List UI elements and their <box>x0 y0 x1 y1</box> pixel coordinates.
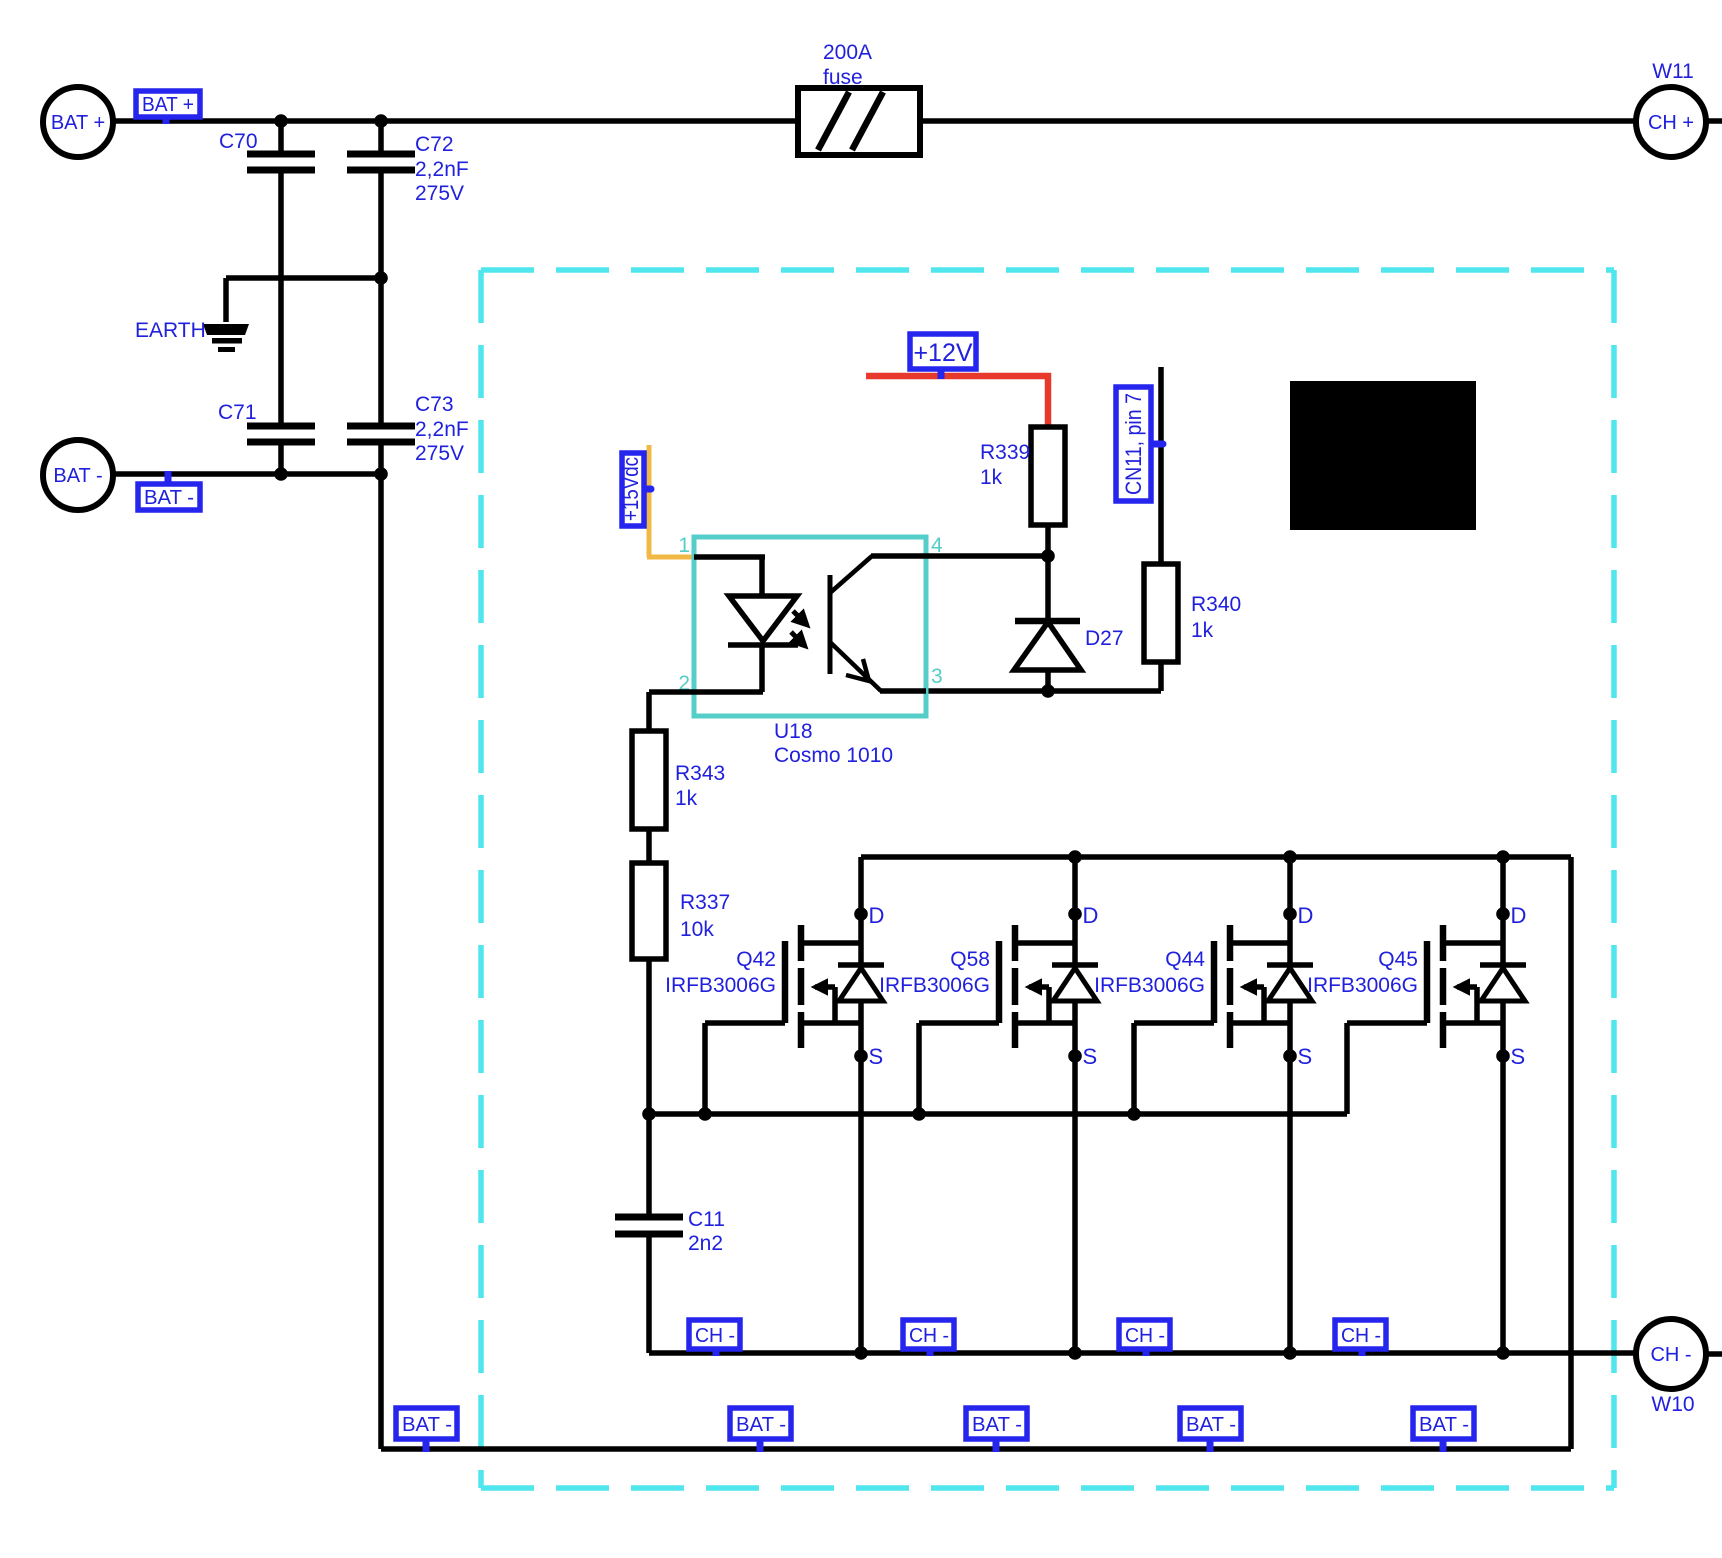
svg-text:BAT -: BAT - <box>402 1414 452 1436</box>
svg-text:R343: R343 <box>675 762 725 785</box>
svg-text:D27: D27 <box>1085 627 1124 650</box>
svg-text:fuse: fuse <box>823 66 863 89</box>
svg-text:Q45: Q45 <box>1378 948 1418 971</box>
svg-text:1k: 1k <box>980 466 1003 489</box>
svg-text:IRFB3006G: IRFB3006G <box>1094 974 1205 997</box>
svg-text:CH +: CH + <box>1648 112 1694 134</box>
svg-text:10k: 10k <box>680 918 714 941</box>
svg-text:R340: R340 <box>1191 593 1241 616</box>
svg-text:C70: C70 <box>219 130 258 153</box>
svg-text:200A: 200A <box>823 41 872 64</box>
svg-text:C71: C71 <box>218 401 257 424</box>
svg-text:2,2nF: 2,2nF <box>415 158 469 181</box>
svg-text:W10: W10 <box>1651 1393 1694 1416</box>
svg-text:C72: C72 <box>415 133 454 156</box>
svg-text:1k: 1k <box>675 787 698 810</box>
svg-text:275V: 275V <box>415 182 464 205</box>
svg-text:IRFB3006G: IRFB3006G <box>1307 974 1418 997</box>
svg-text:2n2: 2n2 <box>688 1232 723 1255</box>
svg-text:+15Vdc: +15Vdc <box>618 457 643 521</box>
svg-text:BAT -: BAT - <box>53 465 102 487</box>
svg-text:CH -: CH - <box>695 1325 735 1347</box>
svg-text:1k: 1k <box>1191 619 1214 642</box>
svg-text:C73: C73 <box>415 393 454 416</box>
svg-text:Q44: Q44 <box>1165 948 1205 971</box>
svg-text:275V: 275V <box>415 442 464 465</box>
svg-text:C11: C11 <box>688 1208 725 1231</box>
svg-text:R339: R339 <box>980 441 1030 464</box>
svg-text:+12V: +12V <box>913 339 972 367</box>
svg-text:3: 3 <box>931 665 943 688</box>
svg-text:EARTH: EARTH <box>135 319 206 342</box>
svg-text:Q42: Q42 <box>736 948 776 971</box>
svg-text:IRFB3006G: IRFB3006G <box>879 974 990 997</box>
svg-text:2,2nF: 2,2nF <box>415 418 469 441</box>
svg-text:R337: R337 <box>680 891 730 914</box>
svg-text:1: 1 <box>678 534 690 557</box>
svg-text:IRFB3006G: IRFB3006G <box>665 974 776 997</box>
svg-text:W11: W11 <box>1652 60 1694 83</box>
svg-text:BAT +: BAT + <box>51 112 105 134</box>
svg-text:Cosmo 1010: Cosmo 1010 <box>774 744 893 767</box>
svg-text:CN11, pin 7: CN11, pin 7 <box>1121 393 1146 495</box>
svg-text:BAT -: BAT - <box>144 487 194 509</box>
svg-text:Q58: Q58 <box>950 948 990 971</box>
svg-text:BAT +: BAT + <box>142 94 194 116</box>
svg-text:CH -: CH - <box>1650 1344 1691 1366</box>
svg-text:U18: U18 <box>774 720 813 743</box>
